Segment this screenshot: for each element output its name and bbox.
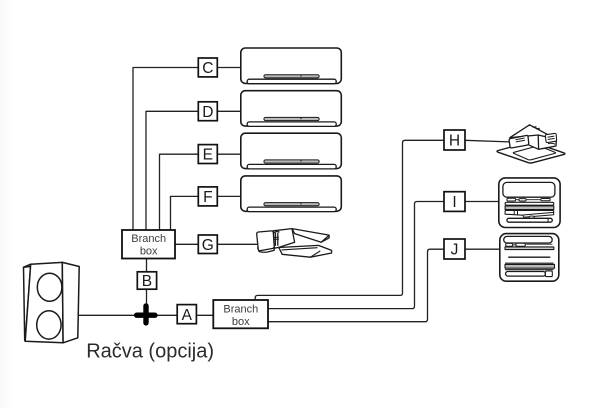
svg-text:D: D xyxy=(202,104,213,121)
svg-text:I: I xyxy=(452,194,456,211)
svg-text:Branch: Branch xyxy=(223,304,258,316)
svg-text:A: A xyxy=(182,307,193,324)
svg-text:G: G xyxy=(202,237,214,254)
svg-text:H: H xyxy=(449,133,460,150)
svg-text:J: J xyxy=(451,242,459,259)
svg-text:Branch: Branch xyxy=(131,233,166,245)
svg-text:B: B xyxy=(142,273,152,290)
svg-text:Račva (opcija): Račva (opcija) xyxy=(86,340,214,362)
svg-text:F: F xyxy=(203,189,212,206)
svg-text:C: C xyxy=(202,60,213,77)
svg-text:box: box xyxy=(232,316,250,328)
svg-text:box: box xyxy=(140,245,158,257)
svg-text:E: E xyxy=(203,147,213,164)
